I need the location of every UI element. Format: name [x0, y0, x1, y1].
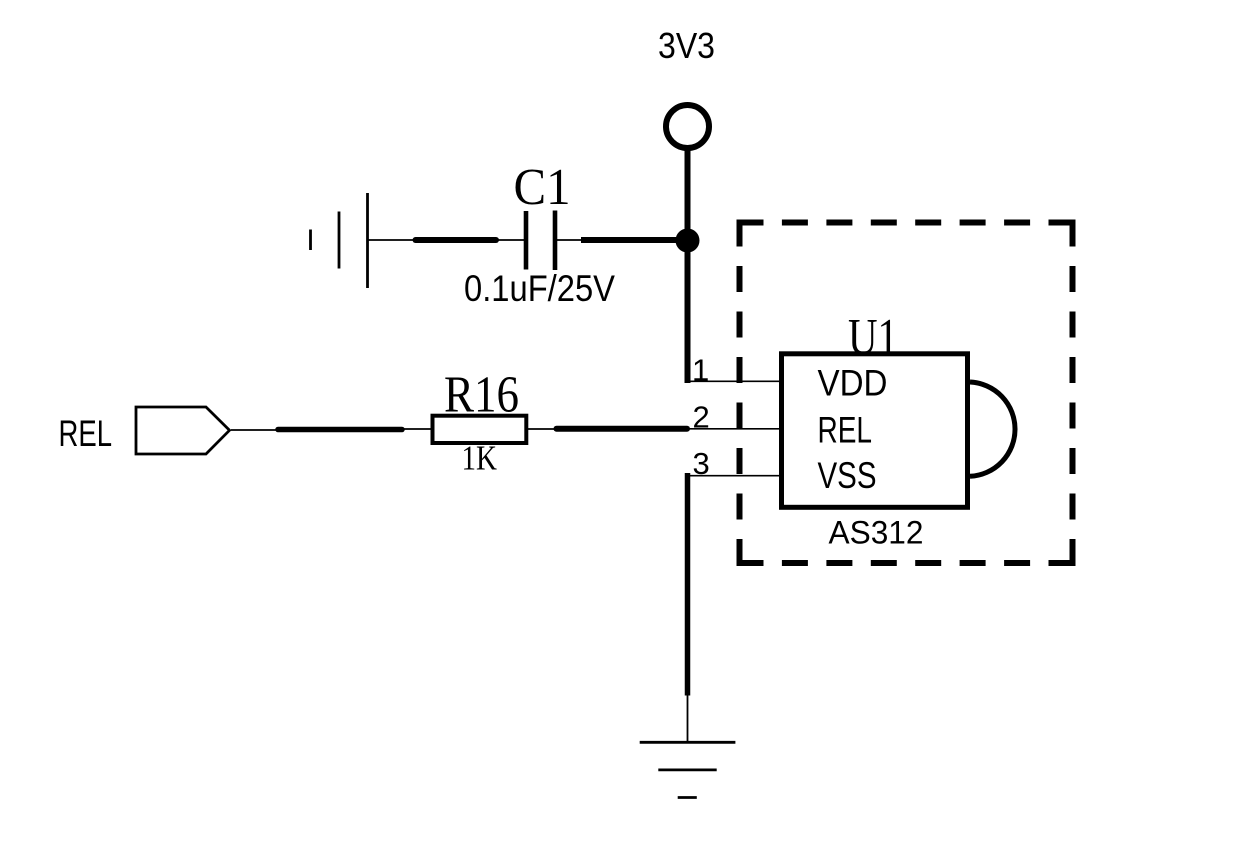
svg-text:2: 2	[693, 399, 710, 434]
svg-text:1: 1	[692, 353, 709, 388]
wire: C1 to junction	[581, 237, 685, 243]
svg-text:VSS: VSS	[818, 455, 877, 496]
svg-text:AS312: AS312	[829, 514, 924, 550]
ground stem (left)	[368, 239, 413, 241]
dashed module box	[740, 223, 1073, 564]
svg-text:1K: 1K	[462, 439, 498, 478]
ground (bottom)	[640, 742, 736, 797]
wire: R16 to pin 2	[557, 426, 688, 432]
sensor lens arc	[970, 382, 1015, 476]
svg-text:3V3: 3V3	[658, 25, 715, 66]
capacitor C1	[498, 239, 524, 241]
wire: pin 3 down to ground	[685, 473, 691, 696]
svg-text:R16: R16	[444, 367, 519, 424]
wire: power circle down through junction to pin 1	[685, 150, 691, 383]
svg-text:0.1uF/25V: 0.1uF/25V	[464, 268, 615, 309]
ground (bottom) stem	[687, 696, 689, 743]
resistor R16	[402, 428, 432, 430]
pin 3 wire	[688, 475, 783, 477]
svg-text:C1: C1	[514, 159, 571, 216]
port REL pentagon	[136, 407, 230, 454]
wire: port to R16	[278, 427, 402, 433]
power flag circle 3V3	[666, 105, 709, 148]
svg-text:REL: REL	[818, 410, 873, 451]
svg-text:3: 3	[693, 446, 710, 481]
svg-text:REL: REL	[59, 413, 113, 454]
junction dot	[676, 229, 700, 253]
pin 2 wire	[687, 428, 782, 430]
svg-text:U1: U1	[848, 309, 898, 366]
port pin wire	[231, 429, 276, 431]
svg-text:VDD: VDD	[818, 362, 888, 403]
wire: ground to C1	[416, 237, 497, 243]
pin 1 wire	[688, 380, 783, 382]
IC body U1	[782, 354, 968, 508]
ground (left, rotated)	[311, 193, 368, 288]
